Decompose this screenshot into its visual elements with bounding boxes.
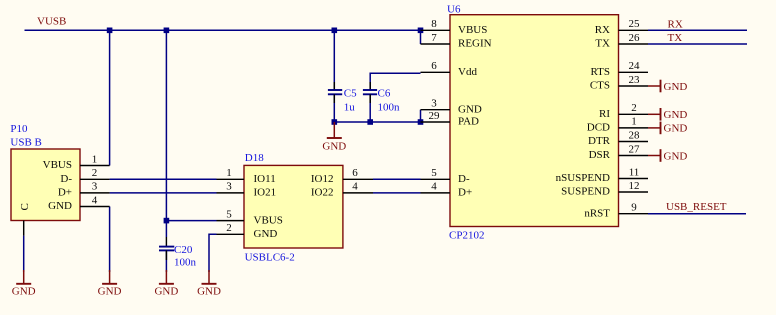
svg-text:IO11: IO11 [254,173,276,185]
U6 pin 26 TX [619,43,649,45]
U6 pin 24 RTS [619,71,649,73]
capacitor C20 [165,237,167,247]
svg-text:VUSB: VUSB [37,16,66,28]
ground DCD [648,127,661,129]
svg-text:GND: GND [48,200,72,212]
svg-text:100n: 100n [174,257,197,269]
svg-text:USB B: USB B [10,137,42,149]
svg-text:CTS: CTS [590,80,610,92]
D18 pin 5 VBUS [217,220,245,222]
wire VUSB drop to D18/C20 column [165,30,167,237]
svg-text:IO21: IO21 [254,187,277,199]
svg-text:DTR: DTR [588,135,611,147]
svg-text:27: 27 [629,143,641,155]
svg-text:nRST: nRST [584,207,610,219]
svg-text:VBUS: VBUS [254,214,283,226]
svg-text:IO12: IO12 [311,173,334,185]
wire C6 bottom [369,94,371,122]
connector P10 body [11,149,80,221]
U6 pin 1 DCD [619,127,649,129]
svg-text:100n: 100n [378,102,401,114]
wire C20 bottom to GND [165,250,167,272]
svg-text:GND: GND [98,286,122,298]
svg-text:RTS: RTS [590,66,610,78]
ground C20 [165,270,167,284]
ground D18 [208,270,210,284]
wire VUSB to P10 VBUS pin1 [109,30,111,165]
svg-text:P10: P10 [10,123,28,135]
P10 shield pin stub [23,221,25,236]
svg-text:GND: GND [154,286,178,298]
ground RI [648,113,661,115]
svg-text:D18: D18 [245,152,264,164]
junction VUSB/C5 [332,28,338,34]
U6 pin 5 D- [421,178,451,180]
U6 pin 7 REGIN [421,43,451,45]
capacitor C6 [369,82,371,90]
junction VUSB/P10 [107,28,113,34]
svg-text:4: 4 [431,181,437,193]
U6 pin 8 VBUS [421,29,451,31]
svg-text:12: 12 [629,180,640,192]
svg-text:PAD: PAD [458,116,479,128]
svg-text:Vdd: Vdd [458,66,477,78]
D18 pin 3 IO21 [217,192,245,194]
svg-text:VBUS: VBUS [43,159,72,171]
svg-text:C6: C6 [378,88,391,100]
wire VUSB horizontal bus [25,29,421,31]
svg-text:D-: D- [60,173,72,185]
svg-text:USB_RESET: USB_RESET [666,201,727,213]
svg-text:25: 25 [629,18,641,30]
ground CTS [648,85,661,87]
svg-text:5: 5 [431,167,437,179]
svg-text:nSUSPEND: nSUSPEND [556,172,610,184]
svg-text:GND: GND [254,228,278,240]
svg-text:3: 3 [431,98,437,110]
U6 pin 11 nSUSPEND [619,178,649,180]
diode array D18 body [244,165,343,248]
U6 pin 2 RI [619,113,649,115]
junction C5 bottom [332,119,338,125]
U6 pin 3 GND [421,109,451,111]
wire P10 GND pin4 down [109,207,111,273]
U6 pin 25 RX [619,29,649,31]
IC U6 body [450,15,619,227]
svg-text:6: 6 [352,167,358,179]
svg-text:GND: GND [664,150,688,162]
wire D18 GND pin2 down [209,234,217,272]
svg-text:SUSPEND: SUSPEND [561,186,610,198]
junction GND/PAD [418,119,424,125]
ground shield [23,270,25,284]
U6 pin 6 Vdd [421,71,451,73]
svg-text:GND: GND [664,81,688,93]
D18 pin 1 IO11 [217,178,245,180]
svg-text:24: 24 [629,60,641,72]
svg-text:IO22: IO22 [311,187,334,199]
svg-text:DCD: DCD [587,122,610,134]
U6 pin 12 SUSPEND [619,191,649,193]
svg-text:GND: GND [664,123,688,135]
svg-text:8: 8 [431,18,437,30]
svg-text:C5: C5 [344,88,357,100]
wire D- segment D18 to U6 [373,178,421,180]
svg-text:1u: 1u [344,102,356,114]
svg-text:USBLC6-2: USBLC6-2 [245,252,295,264]
svg-text:23: 23 [629,74,641,86]
P10 pin 3 D+ [80,192,110,194]
svg-text:4: 4 [352,181,358,193]
svg-text:REGIN: REGIN [458,38,492,50]
wire D+ segment D18 to U6 [373,192,421,194]
wire VBUS to D18 pin5 [166,220,216,222]
svg-text:RI: RI [599,108,610,120]
wire D- segment P10 to D18 [110,178,217,180]
svg-text:2: 2 [631,102,637,114]
ground C5 [333,122,335,138]
junction C6 bottom [367,119,373,125]
svg-text:26: 26 [629,32,641,44]
wire P10 shield down [23,236,25,272]
svg-text:TX: TX [595,38,610,50]
svg-text:9: 9 [631,202,637,214]
svg-text:6: 6 [431,60,437,72]
svg-text:GND: GND [458,103,482,115]
svg-text:4: 4 [92,194,98,206]
junction VBUS/REGIN [418,28,424,34]
wire REGIN drop to pin 7 [420,30,422,44]
svg-text:2: 2 [226,222,232,234]
P10 pin 1 VBUS [80,165,110,167]
svg-text:2: 2 [92,167,98,179]
svg-text:U6: U6 [447,3,461,15]
svg-text:CP2102: CP2102 [449,230,484,242]
svg-text:C: C [19,203,31,210]
ground DSR [648,155,661,157]
svg-text:1: 1 [631,116,637,128]
wire C5 top to VUSB [333,30,335,90]
ground P10 [109,270,111,284]
D18 pin 6 IO12 [343,178,373,180]
svg-text:D-: D- [458,173,470,185]
U6 pin 9 nRST [619,213,649,215]
svg-text:11: 11 [629,166,640,178]
svg-text:RX: RX [668,18,683,30]
svg-text:GND: GND [664,109,688,121]
wire RX to edge [648,29,747,31]
P10 pin 2 D- [80,178,110,180]
svg-text:D+: D+ [458,187,472,199]
P10 pin 4 GND [80,206,110,208]
svg-text:RX: RX [595,24,610,36]
U6 pin 28 DTR [619,141,649,143]
svg-text:VBUS: VBUS [458,24,487,36]
svg-text:1: 1 [226,167,232,179]
svg-text:28: 28 [629,129,641,141]
svg-text:DSR: DSR [589,149,611,161]
U6 pin 29 PAD [421,121,451,123]
svg-text:GND: GND [322,141,346,153]
junction VUSB/D18 drop [164,28,170,34]
wire D+ segment P10 to D18 [110,192,217,194]
svg-text:D+: D+ [58,187,72,199]
capacitor C5 [333,82,335,90]
D18 pin 2 GND [217,233,245,235]
D18 pin 4 IO22 [343,192,373,194]
svg-text:29: 29 [429,110,441,122]
wire cap bottom bus to GND/PAD [334,94,420,122]
svg-text:1: 1 [92,153,98,165]
svg-text:C20: C20 [174,244,193,256]
U6 pin 27 DSR [619,155,649,157]
svg-text:3: 3 [92,181,98,193]
svg-text:GND: GND [12,286,36,298]
wire TX to edge [648,43,747,45]
U6 pin 4 D+ [421,192,451,194]
svg-text:5: 5 [226,208,232,220]
svg-text:7: 7 [431,32,437,44]
U6 pin 23 CTS [619,85,649,87]
wire USB_RESET [648,213,746,215]
svg-text:3: 3 [226,181,232,193]
junction VBUS at D18 pin5 [164,218,170,224]
wire Vdd from C6 to pin 6 [370,73,420,90]
svg-text:GND: GND [197,286,221,298]
svg-text:TX: TX [668,32,683,44]
